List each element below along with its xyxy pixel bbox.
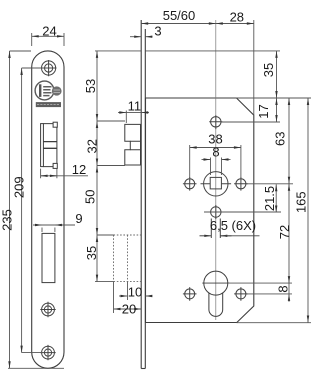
svg-text:11: 11 <box>128 98 142 113</box>
top case hole <box>209 115 222 129</box>
svg-text:8: 8 <box>276 285 291 292</box>
logo <box>35 81 62 107</box>
svg-text:6,5 (6X): 6,5 (6X) <box>210 218 256 233</box>
svg-text:17: 17 <box>256 104 271 118</box>
cylinder screw hole left <box>183 287 197 301</box>
dimension 9 <box>33 225 75 232</box>
dimension 35 right <box>146 51 281 98</box>
dimension 21.5 <box>204 184 281 212</box>
dimension 165 <box>237 98 311 323</box>
top screw hole front view <box>40 60 56 76</box>
svg-text:3: 3 <box>154 24 161 39</box>
svg-text:8: 8 <box>212 145 219 160</box>
svg-text:235: 235 <box>0 209 15 231</box>
lower screw hole 2 front view <box>40 345 55 360</box>
latch bolt side view <box>125 124 141 165</box>
dimension 8 follower <box>202 158 231 176</box>
dimension 72 <box>228 184 292 283</box>
dimension 20 <box>114 282 142 313</box>
vertical centerline <box>215 20 217 320</box>
follower square <box>210 177 221 189</box>
faceplate front view outline <box>32 51 64 368</box>
svg-text:24: 24 <box>42 24 56 39</box>
deadbolt thrown position dashed <box>114 235 142 282</box>
dimension 3 <box>130 36 153 38</box>
dimension 35 middle <box>95 235 114 282</box>
follower side hole left <box>183 177 197 191</box>
dimension 8 right <box>247 283 293 302</box>
svg-text:32: 32 <box>85 139 100 153</box>
svg-text:35: 35 <box>261 63 276 77</box>
euro cylinder hole <box>202 271 229 316</box>
svg-text:72: 72 <box>277 225 292 239</box>
svg-text:20: 20 <box>122 302 136 317</box>
dimension 32 <box>97 121 125 166</box>
faceplate edge view <box>141 20 145 369</box>
dimension 63 <box>247 98 294 184</box>
svg-text:209: 209 <box>11 176 26 198</box>
svg-text:21.5: 21.5 <box>262 186 277 211</box>
lower screw hole 1 front view <box>40 302 55 317</box>
dimension 209 <box>22 68 42 353</box>
deadbolt opening front view <box>42 233 55 282</box>
dimension 28 <box>216 20 254 115</box>
svg-text:53: 53 <box>83 79 98 93</box>
svg-text:50: 50 <box>83 190 98 204</box>
dimension 53 <box>95 51 141 121</box>
dimension 55/60 <box>141 23 216 25</box>
svg-text:35: 35 <box>84 246 99 260</box>
lock case outline <box>146 98 254 323</box>
svg-text:165: 165 <box>294 191 309 213</box>
dimension 38 <box>190 145 241 181</box>
svg-text:10: 10 <box>128 284 142 299</box>
svg-text:9: 9 <box>75 211 82 226</box>
dimension 235 <box>8 51 64 368</box>
hole below follower <box>200 205 260 238</box>
dimension 17 <box>222 98 312 122</box>
svg-text:55/60: 55/60 <box>163 8 196 23</box>
latch bolt front view <box>41 122 58 168</box>
svg-text:28: 28 <box>230 9 244 24</box>
dimension 11 <box>118 111 149 124</box>
follower circle <box>201 172 232 196</box>
dimension 12 <box>41 169 88 179</box>
svg-text:12: 12 <box>72 162 86 177</box>
dimension 50 <box>97 166 114 236</box>
dimension 10 <box>119 282 153 300</box>
dimension 24 <box>32 33 64 46</box>
follower side hole right <box>234 177 248 191</box>
svg-text:63: 63 <box>273 132 288 146</box>
cylinder screw hole right <box>234 287 248 301</box>
